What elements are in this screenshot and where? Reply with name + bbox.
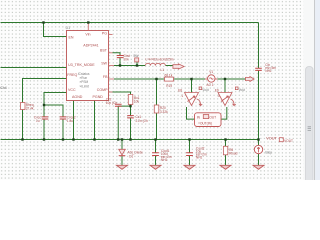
wire EN branch [44, 23, 67, 37]
capacitor Cc2 [106, 98, 122, 107]
pin stub BST [109, 52, 113, 54]
svg-text:SW: SW [133, 54, 138, 58]
node rail Cc2 [117, 138, 119, 140]
svg-text:Vin: Vin [85, 33, 90, 37]
hook arrow E9 [231, 99, 236, 106]
svg-text:»ILimit: »ILimit [80, 85, 90, 89]
pin stub COMP [109, 91, 113, 93]
terminal VOUT [279, 138, 293, 143]
resistor Rc1 [128, 95, 139, 105]
capacitor Cbst [117, 54, 130, 61]
resistor R20 [154, 105, 168, 114]
svg-text:V1: V1 [209, 70, 213, 74]
svg-text:.1: .1 [181, 94, 184, 98]
svg-text:U3_TRK_MODE: U3_TRK_MODE [68, 63, 95, 67]
svg-text:VOUT: VOUT [266, 136, 277, 141]
voltage source V1 [205, 70, 218, 87]
node EN/top [42, 21, 44, 23]
node rail Cout2 [188, 138, 190, 140]
inductor L1 [145, 57, 173, 72]
ground (Cout2) [184, 165, 195, 169]
capacitor Cvcc2 [60, 116, 76, 123]
svg-text:1.8u: 1.8u [67, 119, 73, 123]
svg-text:L1: L1 [161, 68, 165, 72]
wire E8 input [191, 79, 193, 93]
svg-text:FB: FB [103, 75, 108, 79]
node BST/SW [119, 64, 121, 66]
svg-text:=OUT(IN): =OUT(IN) [198, 121, 212, 125]
capacitor Cvcc [34, 116, 48, 123]
node rail VOUT [257, 138, 259, 140]
diode D1 [119, 149, 143, 158]
wire Rload column [225, 140, 227, 166]
svg-text:3.32k: 3.32k [160, 110, 168, 114]
svg-text:10p (Ch: 10p (Ch [106, 101, 118, 105]
svg-text:Vout: Vout [239, 88, 245, 92]
svg-text:VOUT: VOUT [284, 139, 293, 143]
wire ground rail [1, 139, 259, 141]
svg-text:PGND: PGND [93, 95, 104, 99]
wire box to E9 [221, 107, 227, 119]
resistor R19 [165, 73, 174, 88]
wire PGND [94, 101, 96, 140]
pin stub PG [109, 34, 113, 36]
capacitor Cout2 [186, 146, 207, 159]
pin stub SW [109, 65, 115, 67]
svg-text:L=H=82u dcm225m: L=H=82u dcm225m [146, 57, 174, 61]
svg-text:NH1: NH1 [161, 158, 168, 162]
node R20/FB [155, 78, 157, 80]
svg-text:D1: D1 [129, 154, 133, 158]
svg-text:Vout: Vout [202, 88, 208, 92]
node COMP branch [129, 105, 131, 107]
vcvs E9 [215, 88, 232, 105]
port arrow SW out [173, 64, 184, 69]
node E8/FB [190, 78, 192, 80]
node SWprobe [136, 64, 138, 66]
wire TRK/MODE net [1, 67, 67, 69]
op-amp U1 ADP2441 body [67, 31, 109, 101]
svg-text:EN: EN [69, 35, 74, 39]
svg-text:10k: 10k [134, 100, 140, 104]
svg-text:E9: E9 [215, 88, 219, 92]
resistor R6 Rload [223, 146, 237, 155]
svg-text:OUT: OUT [209, 115, 216, 119]
node rail Rload [224, 138, 226, 140]
ground (Rload) [220, 165, 231, 169]
svg-text:VCC: VCC [68, 88, 76, 92]
probe Vout (E8) [199, 87, 209, 92]
svg-text:FREQ: FREQ [67, 73, 77, 77]
node rail AGND [72, 138, 74, 140]
wire Istep column [258, 140, 260, 166]
wire BST to Cbst [113, 53, 121, 66]
node rail Cc1 [129, 138, 131, 140]
ground (Cout1) [150, 165, 161, 169]
wire VCC branch [44, 93, 67, 140]
vcvs E8 [178, 88, 198, 105]
function block OUT(IN) [195, 113, 222, 127]
capacitor Cin [255, 63, 276, 73]
svg-text:PG: PG [102, 31, 107, 35]
svg-text:AC 1: AC 1 [207, 83, 214, 87]
svg-text:68.1k: 68.1k [165, 73, 173, 77]
ground (diode) [117, 165, 128, 169]
wire COMP network [109, 92, 131, 140]
wire Vin column right [258, 23, 260, 140]
capacitor Cout1 [152, 149, 172, 162]
svg-text:2.2n (Ch: 2.2n (Ch [136, 119, 148, 123]
svg-text:SW: SW [101, 61, 107, 65]
node Vin/top [87, 21, 89, 23]
hook arrow E8 [197, 99, 202, 106]
svg-text:NH1: NH1 [265, 69, 272, 73]
svg-text:37.4k: 37.4k [26, 107, 34, 111]
svg-text:AGND: AGND [72, 95, 83, 99]
wire FB injection [114, 78, 246, 80]
svg-text:»PSM: »PSM [80, 80, 89, 84]
svg-text:Rload: Rload [229, 152, 238, 156]
wire R20 column [156, 79, 158, 140]
capacitor Cc1 [127, 115, 148, 123]
svg-text:U1: U1 [66, 26, 71, 30]
ground (Istep) [253, 165, 264, 169]
node rail Cvcc [43, 138, 45, 140]
node rail Cout1 [154, 138, 156, 140]
wire diode column [121, 140, 123, 166]
node VCC branch [43, 104, 45, 106]
svg-text:10n: 10n [123, 58, 129, 62]
wire SW node [114, 65, 177, 67]
svg-text:ADP2441: ADP2441 [83, 44, 98, 48]
node rail PGND [93, 138, 95, 140]
probe Vout (E9) [235, 87, 245, 92]
pin stub Vin [87, 23, 89, 31]
wire SW probe stem [136, 62, 138, 66]
svg-text:E8: E8 [178, 88, 182, 92]
svg-text:R19: R19 [166, 84, 172, 88]
wire FREQ branch [23, 79, 67, 140]
node rail diode [121, 138, 123, 140]
pin stub FB [109, 78, 115, 80]
node E9/FB [224, 78, 226, 80]
wire Vin top rail [1, 22, 259, 24]
svg-text:.1: .1 [217, 94, 220, 98]
probe SW [133, 54, 138, 62]
wire E8 to box [187, 107, 195, 119]
port arrow FB out [246, 77, 255, 82]
svg-text:NH1: NH1 [196, 156, 203, 160]
wire Cout2 column [189, 140, 191, 166]
wire Cout1 column [155, 140, 157, 166]
wire AGND [73, 101, 75, 140]
svg-text:Istep: Istep [265, 150, 272, 154]
node rail Cvcc2 [62, 138, 64, 140]
resistor Rfreq [21, 103, 34, 111]
svg-text:COMP: COMP [97, 88, 108, 92]
svg-text:ICh4: ICh4 [0, 86, 7, 90]
current source Istep [254, 145, 272, 154]
svg-text:BST: BST [100, 48, 108, 52]
scrollbar [304, 0, 320, 183]
svg-text:1u: 1u [36, 119, 40, 123]
node rail Rfreq [21, 138, 23, 140]
wire E9 input [224, 79, 226, 93]
